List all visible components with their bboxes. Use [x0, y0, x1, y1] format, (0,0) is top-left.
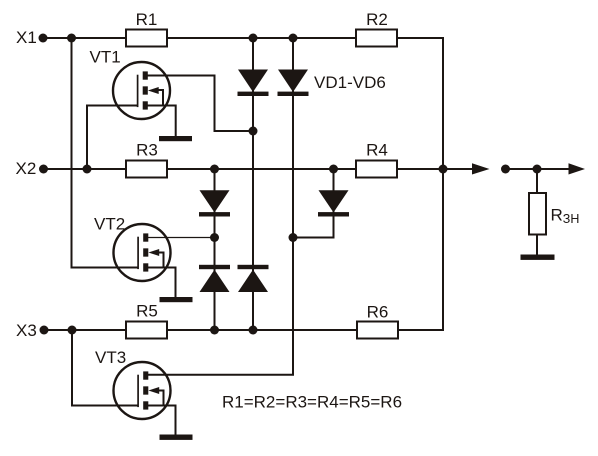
svg-text:X2: X2 [16, 159, 37, 178]
svg-text:X3: X3 [16, 321, 37, 340]
wire VT1 body to source [156, 90, 163, 106]
node output bus [439, 165, 448, 174]
wire VT3 drain [148, 238, 293, 375]
ground VT1 [159, 136, 192, 141]
svg-text:R1: R1 [136, 10, 158, 29]
node load tap [533, 165, 542, 174]
wire column VD1 down [252, 38, 254, 330]
ground load [521, 255, 555, 260]
terminal X3 [40, 326, 49, 335]
node VD6 bottom [249, 326, 258, 335]
wire VT2 body to source [157, 253, 164, 268]
wire row2 right R4 to bus [397, 168, 443, 170]
svg-text:R5: R5 [136, 302, 158, 321]
svg-text:R2: R2 [366, 10, 388, 29]
node X3-gate bus [68, 326, 77, 335]
node VD3 top [210, 165, 219, 174]
arrowhead load [569, 163, 586, 174]
wire column VD4 to node [293, 169, 334, 238]
wire VT3 source to ground [148, 406, 176, 435]
transistor VT1 [113, 62, 170, 119]
wire bus X1 to VT2 gate [72, 38, 139, 268]
wire load resistor bottom [536, 235, 538, 256]
wire right bus R2 to R6 [397, 38, 443, 330]
node VD1 top [249, 34, 258, 43]
wire VT2 source to ground [148, 268, 176, 298]
svg-text:RЗН: RЗН [551, 206, 580, 227]
node VT1 drain [249, 127, 258, 136]
wire row1 mid R1 to R2 [167, 37, 356, 39]
ground VT3 [160, 435, 193, 440]
svg-text:VT1: VT1 [90, 48, 121, 67]
terminal X2 [39, 165, 48, 174]
diode VD1 [238, 70, 269, 97]
terminal X1 [39, 34, 48, 43]
wire row3 left X3 to R5 [44, 329, 126, 331]
wire VT1 gate to X2 [87, 106, 138, 170]
resistor Rzn load [529, 193, 546, 235]
transistor VT3 [114, 362, 171, 419]
resistor R4 [356, 161, 397, 178]
diode VD4 [318, 190, 349, 216]
resistor R6 [357, 322, 398, 339]
arrowhead output [472, 163, 490, 174]
diode VD6 [238, 265, 269, 292]
wire VT3 body to source [157, 391, 164, 406]
resistor R2 [356, 30, 397, 47]
wire X3 to VT3 gate [72, 330, 138, 406]
svg-text:R4: R4 [366, 141, 388, 160]
wire load resistor top [536, 169, 538, 193]
wire row1 left X1 to R1 [43, 37, 126, 39]
wire output arrow line [443, 168, 477, 170]
diode VD2 [278, 70, 309, 97]
svg-text:VT3: VT3 [95, 348, 126, 367]
svg-text:R6: R6 [367, 303, 389, 322]
wire row2 left X2 to R3 [44, 168, 127, 170]
resistor R5 [126, 322, 167, 339]
svg-text:R3: R3 [136, 141, 158, 160]
wire load line [506, 168, 573, 170]
node X1-gate bus [67, 34, 76, 43]
wire row3 mid R5 to R6 [167, 329, 357, 331]
node load left [501, 165, 510, 174]
node VT3 drain [289, 233, 298, 242]
wire row2 mid R3 to R4 [167, 168, 356, 170]
svg-text:R1=R2=R3=R4=R5=R6: R1=R2=R3=R4=R5=R6 [222, 393, 402, 412]
wire VT1 source to ground [148, 106, 176, 137]
wire VT1 drain to node [148, 76, 254, 132]
node VD2 top [289, 34, 298, 43]
diode VD3 [199, 190, 230, 216]
wire column VD3-VD5 [214, 169, 216, 330]
node VT2 drain [210, 233, 219, 242]
wire column VD2 down [292, 38, 294, 238]
resistor R1 [126, 30, 167, 47]
resistor R3 [126, 161, 167, 178]
node VD5 bottom [210, 326, 219, 335]
wire VT2 drain [148, 237, 215, 239]
svg-text:VD1-VD6: VD1-VD6 [314, 73, 386, 92]
svg-text:X1: X1 [16, 28, 37, 47]
node VT1 gate X2 [83, 165, 92, 174]
transistor VT2 [114, 224, 171, 281]
svg-text:VT2: VT2 [94, 215, 125, 234]
ground VT2 [160, 297, 193, 302]
node VD4 top [329, 165, 338, 174]
diode VD5 [199, 265, 230, 292]
